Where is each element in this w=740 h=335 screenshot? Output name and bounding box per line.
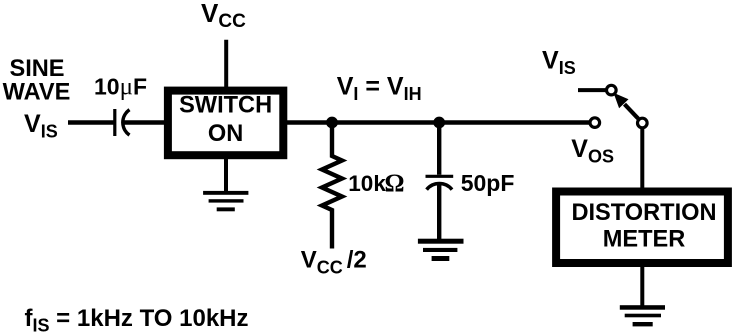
wire switch pole to distortion meter	[640, 129, 644, 193]
value label 10kOhm	[348, 170, 404, 197]
svg-text:SINE: SINE	[9, 56, 64, 82]
wire VCC to switch box	[224, 40, 228, 91]
svg-text:SWITCH: SWITCH	[179, 93, 272, 119]
resistor R1	[322, 123, 342, 249]
svg-text:50pF: 50pF	[461, 170, 515, 196]
node VIS input label	[24, 110, 58, 142]
terminal circle VOS	[590, 118, 600, 128]
wire to VIS throw terminal	[578, 88, 606, 92]
svg-text:10k: 10k	[348, 171, 386, 196]
svg-text:ON: ON	[208, 121, 243, 147]
svg-text:METER: METER	[603, 226, 686, 252]
ground below switch box	[203, 191, 248, 211]
wire VIS to capacitor C1	[68, 120, 114, 124]
svg-text:10μF: 10μF	[94, 73, 147, 100]
wire switch box to ground	[224, 157, 228, 193]
ground below capacitor C2	[418, 239, 464, 261]
svg-text:WAVE: WAVE	[3, 79, 71, 105]
capacitor C1	[115, 109, 130, 136]
node junction at capacitor C2	[433, 117, 445, 129]
switch arm with arrow	[614, 93, 639, 119]
node junction at resistor	[326, 117, 338, 129]
distortion meter box	[556, 192, 728, 264]
terminal circle VIS throw	[607, 85, 617, 95]
wire capacitor C1 to switch box	[124, 120, 168, 124]
svg-text:fIS = 1kHz TO 10kHz: fIS = 1kHz TO 10kHz	[25, 305, 249, 335]
svg-text:Ω: Ω	[385, 170, 405, 197]
svg-text:DISTORTION: DISTORTION	[571, 200, 716, 226]
switch box U1 SWITCH ON	[168, 91, 283, 156]
capacitor C2	[426, 123, 454, 242]
label SINE WAVE source	[3, 56, 71, 105]
wire switch box output to VOS terminal	[287, 120, 590, 124]
ground below distortion meter	[620, 305, 665, 326]
switch pole circle	[638, 118, 648, 128]
wire distortion meter to ground	[640, 263, 644, 308]
